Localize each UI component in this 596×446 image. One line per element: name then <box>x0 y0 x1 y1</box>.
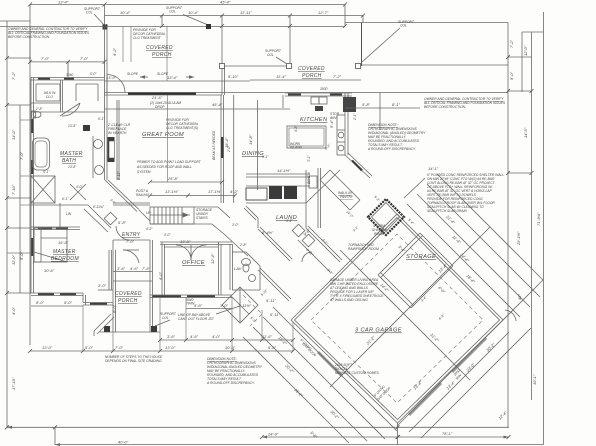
svg-text:3060: 3060 <box>66 73 74 77</box>
svg-text:7'-2": 7'-2" <box>509 39 514 48</box>
svg-text:16'-0": 16'-0" <box>58 240 69 245</box>
svg-text:PRIMER TO ADD POINT LOAD SUPPO: PRIMER TO ADD POINT LOAD SUPPORT <box>137 160 202 164</box>
svg-text:4'-0": 4'-0" <box>11 306 16 315</box>
svg-text:9'-0": 9'-0" <box>64 300 73 305</box>
svg-text:COL: COL <box>267 53 274 57</box>
diagonal dims lower-left of garage <box>243 307 397 443</box>
svg-text:LAV: LAV <box>234 266 242 271</box>
toilet left <box>33 112 41 118</box>
svg-text:14'-8": 14'-8" <box>248 134 253 145</box>
porch posts verticals <box>122 26 124 62</box>
svg-text:A ROUND-OFF DISCREPANCY.: A ROUND-OFF DISCREPANCY. <box>367 147 416 151</box>
svg-text:40'-0": 40'-0" <box>118 440 129 445</box>
svg-text:STORAGE: STORAGE <box>406 254 436 260</box>
svg-text:12'-7": 12'-7" <box>318 10 329 15</box>
svg-text:7'-2": 7'-2" <box>333 74 342 79</box>
svg-text:PORCH: PORCH <box>152 52 172 58</box>
svg-text:KITCHEN: KITCHEN <box>300 117 328 123</box>
svg-text:DEPENDS ON FINAL SITE GRADING: DEPENDS ON FINAL SITE GRADING <box>105 359 162 363</box>
fireplace <box>108 137 115 162</box>
svg-text:8'-1": 8'-1" <box>392 102 401 107</box>
svg-text:4'-8": 4'-8" <box>294 125 298 132</box>
svg-text:14'-5": 14'-5" <box>523 127 528 138</box>
svg-text:13'-8": 13'-8" <box>68 124 77 128</box>
svg-text:5'-0": 5'-0" <box>509 71 514 80</box>
svg-text:TWIN: TWIN <box>186 302 195 306</box>
bottom dim rows <box>160 339 293 341</box>
svg-text:3'-6": 3'-6" <box>117 266 126 271</box>
svg-text:COVERED: COVERED <box>115 291 142 297</box>
svg-text:13'-0": 13'-0" <box>42 345 53 350</box>
svg-text:10'-6": 10'-6" <box>44 268 55 273</box>
svg-text:5'-0": 5'-0" <box>90 72 97 76</box>
svg-text:BEFORE CONSTRUCTION.: BEFORE CONSTRUCTION. <box>8 35 50 39</box>
svg-text:8'-0": 8'-0" <box>36 300 45 305</box>
svg-text:RAILING: RAILING <box>136 193 150 197</box>
svg-text:CLG TREATMENT(S): CLG TREATMENT(S) <box>166 126 198 130</box>
svg-text:AT WALLS AND CEILING: AT WALLS AND CEILING <box>329 298 368 302</box>
svg-text:MASTER: MASTER <box>60 151 83 157</box>
svg-text:3'-0": 3'-0" <box>232 223 239 227</box>
svg-text:SYSTEM: SYSTEM <box>137 170 151 174</box>
svg-text:5'-6": 5'-6" <box>194 303 203 308</box>
bath bowls <box>83 125 90 131</box>
svg-text:13'-0": 13'-0" <box>180 239 191 244</box>
island <box>287 126 326 148</box>
kitchen bottom counter <box>246 174 310 186</box>
svg-text:21'-6": 21'-6" <box>151 95 163 100</box>
svg-text:STAIRS: STAIRS <box>196 216 208 220</box>
svg-text:ENTRY: ENTRY <box>122 232 141 238</box>
svg-text:W/ HEARTH: W/ HEARTH <box>108 131 127 135</box>
svg-text:5'-8": 5'-8" <box>118 220 127 225</box>
svg-text:LIN: LIN <box>66 212 72 216</box>
svg-text:3'-1": 3'-1" <box>307 155 311 162</box>
svg-text:BATH: BATH <box>62 158 76 164</box>
svg-text:AS NEEDED FOR ROOF AND WALL: AS NEEDED FOR ROOF AND WALL <box>136 165 192 169</box>
svg-text:2'-8": 2'-8" <box>35 107 43 111</box>
svg-text:CANT OUT FLOOR JST: CANT OUT FLOOR JST <box>178 317 215 321</box>
diagonal dims upper-right of garage <box>407 174 543 317</box>
svg-text:PORCH: PORCH <box>302 73 322 79</box>
svg-text:19'-1": 19'-1" <box>532 374 537 385</box>
sink / dw / range <box>311 97 319 104</box>
svg-text:3'-0": 3'-0" <box>164 233 171 237</box>
svg-text:11'-4": 11'-4" <box>276 74 286 79</box>
svg-text:6'-0": 6'-0" <box>158 271 163 280</box>
svg-text:45'-4": 45'-4" <box>220 0 231 5</box>
svg-text:25'-8": 25'-8" <box>167 176 179 181</box>
svg-text:5'-11": 5'-11" <box>266 298 276 303</box>
svg-text:4'-0": 4'-0" <box>212 334 221 339</box>
svg-text:BENCH: BENCH <box>307 172 311 184</box>
svg-text:13'-1½": 13'-1½" <box>165 189 179 194</box>
svg-text:13'-4": 13'-4" <box>58 0 69 5</box>
svg-text:3030: 3030 <box>320 87 328 91</box>
shower X <box>31 176 55 203</box>
side steps <box>94 314 114 336</box>
svg-text:5'-10": 5'-10" <box>117 171 121 180</box>
svg-text:ISLAND: ISLAND <box>290 146 303 150</box>
svg-text:PORCH: PORCH <box>118 298 138 304</box>
svg-text:13'-0": 13'-0" <box>106 75 117 80</box>
svg-text:8'-0": 8'-0" <box>112 304 117 313</box>
svg-text:14'-1½": 14'-1½" <box>277 168 291 173</box>
svg-text:7'-0": 7'-0" <box>115 345 124 350</box>
svg-text:UP: UP <box>146 211 151 215</box>
svg-text:2'-0": 2'-0" <box>227 145 231 153</box>
svg-text:11'-0": 11'-0" <box>11 255 16 265</box>
svg-text:COL: COL <box>86 11 93 15</box>
svg-text:6'-2": 6'-2" <box>112 47 117 56</box>
svg-text:78'-1": 78'-1" <box>442 431 453 436</box>
svg-text:5'-8": 5'-8" <box>362 102 371 107</box>
svg-text:5'-9": 5'-9" <box>286 219 293 223</box>
svg-text:DROP: DROP <box>155 105 165 109</box>
svg-text:8'-4½": 8'-4½" <box>262 230 274 235</box>
porch center line + slope <box>166 26 168 81</box>
svg-text:A ROUND-OFF DISCREPANCY.: A ROUND-OFF DISCREPANCY. <box>206 381 255 385</box>
svg-text:7'-6": 7'-6" <box>142 266 151 271</box>
dim row above house top-left <box>30 61 105 63</box>
svg-text:10'-4": 10'-4" <box>188 10 199 15</box>
svg-text:BEDROOM: BEDROOM <box>51 256 79 262</box>
svg-text:13'-4": 13'-4" <box>167 75 178 80</box>
svg-text:MASTER: MASTER <box>53 249 76 255</box>
svg-text:14'-1": 14'-1" <box>428 166 439 171</box>
dim row under kitchen top wall <box>345 107 420 109</box>
svg-text:2'-1": 2'-1" <box>353 113 357 121</box>
svg-text:COL: COL <box>400 24 407 28</box>
mud bench <box>309 176 317 188</box>
svg-text:COVERED: COVERED <box>298 66 325 72</box>
svg-text:4'-2": 4'-2" <box>230 189 239 194</box>
svg-text:ROOM: ROOM <box>374 232 385 236</box>
svg-text:25'-1½": 25'-1½" <box>516 231 521 246</box>
svg-text:2'-8": 2'-8" <box>239 243 247 247</box>
svg-text:PANTRY: PANTRY <box>340 195 354 199</box>
svg-text:14'-0": 14'-0" <box>11 129 16 140</box>
tub <box>33 138 50 170</box>
svg-text:4'-0": 4'-0" <box>76 185 83 189</box>
svg-text:17'-1½": 17'-1½" <box>208 189 222 194</box>
svg-text:7'-2": 7'-2" <box>11 71 16 80</box>
svg-text:BEAM AS NEEDED: BEAM AS NEEDED <box>212 130 216 160</box>
svg-text:13'-0": 13'-0" <box>165 345 176 350</box>
svg-text:5'-10": 5'-10" <box>228 74 239 79</box>
svg-text:11'-11": 11'-11" <box>240 10 252 15</box>
svg-text:13'-8": 13'-8" <box>68 165 77 169</box>
svg-text:45°: 45° <box>517 294 522 300</box>
svg-text:COVERED: COVERED <box>146 45 173 51</box>
svg-text:12'-0": 12'-0" <box>523 45 528 56</box>
svg-text:ABV: ABV <box>329 116 337 120</box>
svg-text:24'-9": 24'-9" <box>267 432 279 437</box>
svg-text:7'-0": 7'-0" <box>19 151 24 160</box>
svg-text:5'-0": 5'-0" <box>85 345 94 350</box>
interior garage dims <box>330 227 490 387</box>
patio door arc <box>107 75 125 93</box>
svg-text:7'-0": 7'-0" <box>126 239 135 244</box>
svg-text:17'-10": 17'-10" <box>11 377 16 390</box>
svg-text:10'-4": 10'-4" <box>120 10 131 15</box>
svg-text:GREAT ROOM: GREAT ROOM <box>142 132 184 138</box>
svg-text:5'-4": 5'-4" <box>329 119 334 128</box>
svg-text:9'-1": 9'-1" <box>262 155 269 159</box>
svg-text:3'-0": 3'-0" <box>98 283 107 288</box>
svg-text:RAINPROOF ROOM: RAINPROOF ROOM <box>348 247 379 251</box>
svg-text:3'-6": 3'-6" <box>167 334 176 339</box>
svg-text:CLO: CLO <box>46 95 53 99</box>
svg-text:5'-1": 5'-1" <box>43 170 50 174</box>
svg-text:7'-0": 7'-0" <box>41 56 50 61</box>
svg-text:SLOPE: SLOPE <box>127 72 139 76</box>
hall/linen <box>31 203 111 232</box>
svg-text:4'-6": 4'-6" <box>190 334 199 339</box>
svg-text:BEFORE CONSTRUCTION.: BEFORE CONSTRUCTION. <box>424 105 466 109</box>
svg-text:CLG TREATMENT: CLG TREATMENT <box>133 36 162 40</box>
svg-text:7'-0": 7'-0" <box>80 56 89 61</box>
right cabinets <box>337 115 345 155</box>
svg-text:OFFICE: OFFICE <box>182 260 205 266</box>
svg-text:71'-9¾": 71'-9¾" <box>536 212 541 226</box>
svg-text:12'-4": 12'-4" <box>210 253 215 264</box>
svg-text:4'-6": 4'-6" <box>130 266 139 271</box>
svg-text:MIDWEST CUSTOM HOMES: MIDWEST CUSTOM HOMES <box>335 371 380 375</box>
svg-text:6'-1": 6'-1" <box>98 117 105 121</box>
svg-text:7'-10": 7'-10" <box>11 184 16 195</box>
svg-text:4'-2": 4'-2" <box>146 227 153 231</box>
bath interior <box>31 80 104 116</box>
svg-text:8'-11¾": 8'-11¾" <box>93 205 105 209</box>
svg-text:3 CAR GARAGE: 3 CAR GARAGE <box>355 328 402 334</box>
svg-text:COL: COL <box>162 316 169 320</box>
diagonal dims lower-right <box>397 280 543 438</box>
svg-text:COL: COL <box>169 10 176 14</box>
svg-text:DINING: DINING <box>242 151 264 157</box>
svg-text:6'-1": 6'-1" <box>62 197 69 201</box>
